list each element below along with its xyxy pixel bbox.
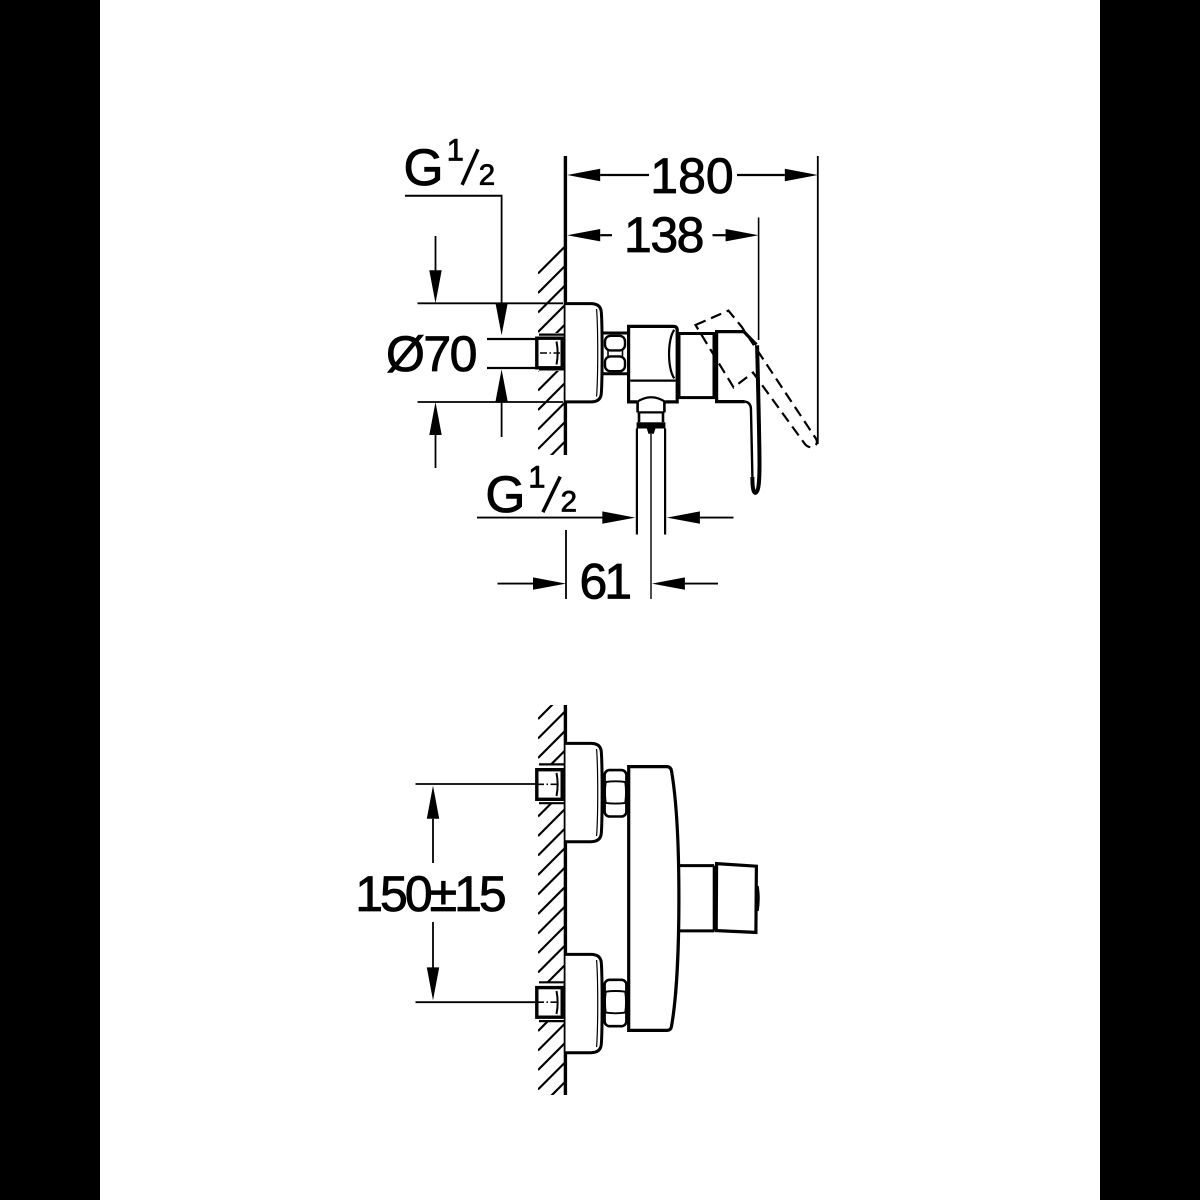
inlet square nipple (top drawing)	[537, 338, 562, 368]
lower wall escutcheon (lower drawing)	[566, 954, 603, 1052]
white knockout behind lower nipple (lower drawing)	[536, 982, 564, 1023]
upper union nut (lower drawing)	[605, 770, 627, 816]
150 dimension upper extension / center line	[416, 783, 537, 785]
G1/2 top label underline	[405, 195, 503, 197]
150 dimension lower extension / center line	[416, 1001, 537, 1003]
svg-text:G: G	[485, 465, 525, 523]
dia70 top extension line	[418, 302, 564, 304]
150 dimension line with arrows	[427, 786, 439, 819]
extension line 180 (handle tip, dashed position)	[817, 156, 819, 444]
handle cap (top drawing)	[717, 332, 745, 402]
left black border bar	[0, 0, 100, 1200]
white knockout behind upper nipple (lower drawing)	[536, 764, 564, 805]
handle stem (lower drawing)	[678, 864, 714, 867]
outlet center line	[650, 434, 652, 599]
extension line 138 (handle tip, solid position)	[758, 218, 760, 341]
union nut (top drawing)	[602, 332, 629, 335]
upper wall escutcheon (lower drawing)	[566, 743, 603, 841]
wall line (lower drawing)	[564, 705, 567, 1095]
knob face arc	[758, 886, 759, 911]
inlet pipe behind wall (top drawing)	[487, 338, 537, 340]
outlet pipe lines	[636, 429, 638, 535]
outlet nub	[647, 429, 656, 434]
dimension 61	[565, 530, 567, 599]
white knockout behind inlet nipple (top drawing)	[536, 333, 564, 371]
upper square nipple (lower drawing)	[537, 770, 562, 800]
G1/2 top leader line with down arrow	[501, 196, 503, 304]
inlet flange lines (top drawing)	[539, 334, 564, 336]
outlet dome arc	[637, 397, 665, 402]
handle lever dashed (raised position)	[696, 311, 817, 448]
svg-text:Ø70: Ø70	[386, 326, 476, 382]
cartridge sleeve (top drawing)	[679, 334, 714, 398]
valve body (top drawing)	[629, 326, 678, 402]
svg-text:138: 138	[624, 207, 703, 263]
dia70 upper arrow	[435, 236, 437, 272]
svg-text:180: 180	[650, 148, 733, 204]
wall hatching (top drawing)	[538, 246, 566, 488]
body cap arc	[669, 330, 674, 379]
handle knob (lower drawing)	[716, 864, 756, 933]
dimension 138	[567, 229, 600, 241]
right black border bar	[1100, 0, 1200, 1200]
svg-text:61: 61	[579, 553, 630, 609]
G1/2 lower dimension right arrow	[667, 511, 700, 523]
lower inlet flange lines (lower drawing)	[539, 981, 564, 983]
wall escutcheon (top drawing)	[566, 304, 603, 402]
outlet black band	[637, 422, 666, 428]
upper inlet flange lines (lower drawing)	[539, 763, 564, 765]
mixer body (lower drawing)	[629, 767, 679, 1031]
wall line (top drawing)	[564, 156, 567, 455]
handle lever solid (down position)	[752, 345, 759, 492]
svg-text:150±15: 150±15	[355, 866, 505, 922]
G1/2 lower dimension line left with arrow	[477, 517, 603, 519]
outlet collar	[638, 402, 665, 412]
wall hatching (lower drawing)	[538, 692, 566, 1123]
lower square nipple (lower drawing)	[537, 988, 562, 1018]
lower union nut (lower drawing)	[605, 980, 627, 1026]
G1/2 top opposing up arrow	[495, 369, 507, 402]
svg-text:G: G	[404, 138, 444, 196]
dia70 bottom extension line	[418, 401, 564, 403]
dimension 180	[567, 169, 600, 181]
body lower separation line	[630, 380, 675, 382]
dia70 lower arrow	[429, 402, 441, 435]
